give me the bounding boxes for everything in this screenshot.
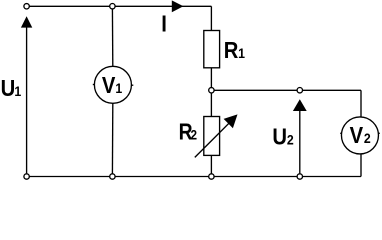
svg-text:V: V [102, 72, 116, 99]
node G bottom R2 [209, 174, 214, 179]
label I [161, 10, 167, 37]
voltmeter V2 [340, 117, 380, 154]
resistor R2 (variable) [204, 117, 220, 156]
wire V1 branch top [111, 6, 113, 66]
voltmeter V1 [93, 66, 134, 103]
wire V1 branch bottom [111, 104, 113, 177]
svg-text:2: 2 [364, 130, 371, 146]
label U2 [272, 123, 293, 150]
node A top-left [24, 4, 29, 9]
label V1 [102, 72, 122, 99]
wire corner down into R1 [210, 6, 212, 31]
svg-text:R: R [224, 37, 239, 64]
node H bottom U2 [297, 174, 302, 179]
voltage arrow U1 (left branch) [21, 16, 32, 173]
label U1 [1, 75, 22, 102]
label R1 [224, 37, 245, 64]
label V2 [350, 122, 371, 149]
node B top-middle [110, 3, 115, 8]
svg-text:1: 1 [115, 80, 122, 96]
svg-text:2: 2 [287, 132, 294, 148]
svg-text:I: I [161, 10, 167, 37]
node D middle junction at U2 [297, 88, 302, 93]
wire R1 bottom to node C [210, 68, 212, 91]
wire middle rail node C to corner [211, 89, 361, 91]
resistor R1 [204, 31, 220, 68]
wire corner down into V2 top [360, 90, 362, 117]
wire node C down into R2 [210, 90, 212, 116]
voltage arrow U2 [293, 99, 307, 173]
wire corner up into V2 bottom [360, 153, 362, 176]
node F bottom V1 [110, 174, 115, 179]
node C middle junction at R1/R2 [209, 88, 214, 93]
svg-text:U: U [272, 123, 287, 150]
wire R2 bottom to node G [210, 155, 212, 176]
wire bottom rail [27, 176, 361, 178]
wire top rail [27, 5, 212, 7]
variable-resistor arrow through R2 [195, 114, 238, 157]
svg-text:2: 2 [191, 126, 198, 142]
svg-text:1: 1 [238, 45, 245, 61]
label R2 [179, 120, 197, 145]
node E bottom-left [24, 174, 29, 179]
arrow I on top rail [172, 0, 184, 12]
svg-text:V: V [350, 122, 364, 149]
svg-text:U: U [1, 75, 16, 102]
svg-text:1: 1 [14, 83, 21, 99]
